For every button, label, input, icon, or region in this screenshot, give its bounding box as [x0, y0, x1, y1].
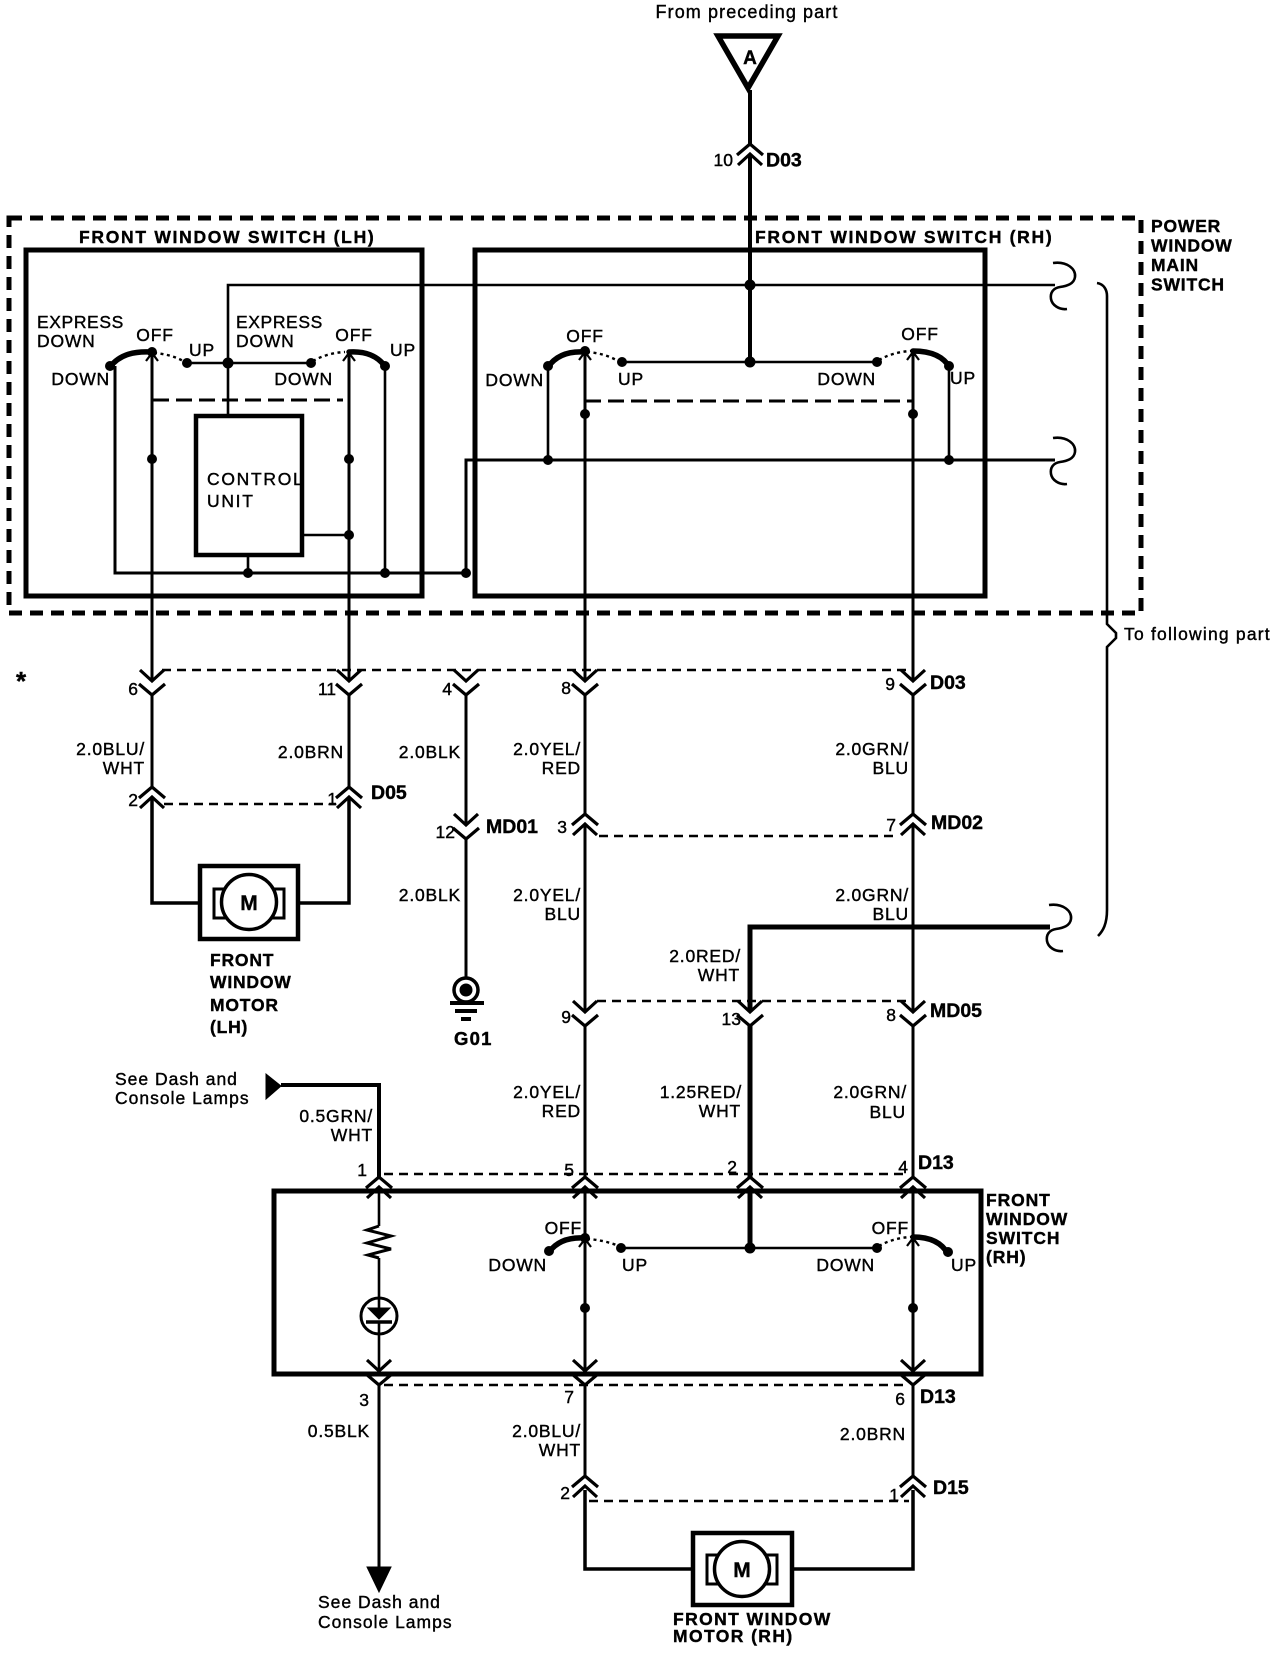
connector row dashed line (pins 3/7/6 D13 bottom) — [384, 1384, 909, 1387]
svg-text:2.0GRN/: 2.0GRN/ — [833, 1082, 907, 1102]
connector pin 13 (MD05 row) — [722, 1001, 763, 1029]
wire pin1 to resistor — [378, 1187, 381, 1226]
wire LH common net (y=573) from DOWN contact to x=466 — [115, 366, 466, 573]
svg-text:7: 7 — [886, 815, 896, 835]
svg-text:G01: G01 — [454, 1028, 493, 1049]
connector D15 pin 1 — [889, 1476, 969, 1505]
svg-text:11: 11 — [318, 679, 336, 699]
svg-text:BLU: BLU — [873, 904, 909, 924]
wire pin5 down to switch OFF contact — [584, 1187, 587, 1238]
wire LH switch1 UP to switch2 DOWN — [187, 362, 311, 365]
connector pin 2 (D05) — [128, 787, 165, 810]
svg-text:MD05: MD05 — [930, 1000, 982, 1022]
wire continuation curl (net y=927) — [1047, 905, 1071, 951]
front window switch LH box — [26, 250, 422, 596]
wire pin9 to pin5 2.0YEL/RED — [584, 1025, 587, 1177]
wire RH switch1 OFF contact down to pin 8 — [584, 352, 587, 681]
wire to following part (right vertical) — [1097, 283, 1116, 936]
svg-text:WHT: WHT — [103, 758, 145, 778]
svg-text:DOWN: DOWN — [816, 1255, 875, 1275]
svg-text:4: 4 — [898, 1157, 908, 1177]
label 2.0YEL/BLU — [513, 885, 581, 924]
wire pin7 to pin8 MD05 2.0GRN/BLU — [912, 824, 915, 1012]
wire D13 pin4 down through switch2 OFF to pin 6 — [912, 1187, 915, 1371]
connector D03 pin 9 — [885, 670, 966, 695]
connector pin 7 (D13 bottom) — [564, 1360, 598, 1407]
connector pin 2 (D13) — [727, 1157, 763, 1198]
label 2.0YEL/RED (lower) — [513, 1082, 581, 1121]
switch LH 2 (express down window switch) — [306, 352, 390, 371]
control unit box U1 — [196, 416, 304, 555]
svg-text:OFF: OFF — [545, 1218, 582, 1238]
wire MD01 pin12 to ground 2.0BLK — [465, 838, 468, 978]
svg-text:2.0BLU/: 2.0BLU/ — [76, 739, 145, 759]
svg-text:2.0BLK: 2.0BLK — [399, 742, 461, 762]
svg-text:*: * — [16, 666, 27, 696]
wire pin4 to MD01 2.0BLK — [465, 693, 468, 825]
svg-text:WINDOW: WINDOW — [986, 1209, 1068, 1229]
wire from triangle A down to connector D03 pin 10 — [748, 90, 752, 144]
switch RH 1 (main switch, RH window) — [543, 346, 627, 371]
svg-text:2.0YEL/: 2.0YEL/ — [513, 1082, 581, 1102]
wire D03 pin 10 to power window main switch feed node — [748, 154, 752, 362]
connector row dashed line (pins 9/13/8 MD05) — [597, 1000, 907, 1003]
connector pin 9 (MD05 row) — [561, 1001, 598, 1027]
svg-text:SWITCH: SWITCH — [986, 1228, 1060, 1248]
svg-text:DOWN: DOWN — [817, 369, 876, 389]
connector D05 pin 1 — [327, 782, 407, 809]
svg-text:6: 6 — [128, 679, 138, 699]
wire LH switch2 UP contact down to common net — [384, 366, 387, 573]
svg-text:8: 8 — [561, 678, 571, 698]
node junction at (248,573) — [243, 568, 253, 578]
svg-text:(RH): (RH) — [986, 1247, 1027, 1267]
wire RH switch2 OFF contact down to pin 9 — [912, 352, 915, 681]
svg-text:UP: UP — [189, 340, 215, 360]
connector symbol A (triangle from preceding part) — [718, 36, 778, 88]
wire pin7 to pin2 D15 2.0BLU/WHT — [584, 1385, 587, 1476]
label 2.0GRN/BLU (third) — [833, 1082, 907, 1122]
arrow to dash and console lamps — [266, 1074, 281, 1099]
svg-text:FRONT: FRONT — [210, 950, 274, 970]
svg-text:UNIT: UNIT — [207, 491, 255, 511]
svg-text:D15: D15 — [933, 1477, 969, 1499]
svg-text:EXPRESS: EXPRESS — [37, 312, 124, 332]
label See Dash and Console Lamps (upper) — [115, 1069, 250, 1108]
node junction at (750,1248) — [745, 1243, 756, 1254]
svg-text:EXPRESS: EXPRESS — [236, 312, 323, 332]
svg-text:1: 1 — [327, 789, 337, 809]
svg-text:1: 1 — [889, 1485, 899, 1505]
svg-text:D03: D03 — [766, 150, 802, 172]
svg-text:D13: D13 — [918, 1152, 954, 1174]
switch RH 2 (main switch, RH window) — [872, 351, 954, 371]
connector pin 1 (D13) — [357, 1160, 392, 1198]
label EXPRESS DOWN (LH switch 2) — [236, 312, 323, 351]
label 2.0GRN/BLU — [835, 739, 909, 778]
wire LH switch2 OFF contact down to pin 11 — [348, 352, 351, 681]
svg-text:2: 2 — [727, 1157, 737, 1177]
wire from LH switch common to RH switch and to following part (net at y=285) — [228, 285, 1055, 416]
svg-text:BLU: BLU — [545, 904, 581, 924]
svg-text:FRONT: FRONT — [986, 1190, 1051, 1210]
svg-text:1: 1 — [357, 1160, 367, 1180]
connector pin 6 — [128, 670, 165, 699]
wire D15 pin1 down to RH motor — [791, 1490, 913, 1569]
svg-text:2.0GRN/: 2.0GRN/ — [835, 885, 909, 905]
node junction at (349,459) — [344, 454, 354, 464]
node junction at (228,363) — [223, 358, 234, 369]
svg-text:Console Lamps: Console Lamps — [115, 1088, 250, 1108]
wire control unit right side to switch2 line — [302, 534, 349, 537]
svg-text:2.0GRN/: 2.0GRN/ — [835, 739, 909, 759]
wire pin3 to pin9 2.0YEL/BLU — [584, 824, 587, 1012]
wire resistor to LED — [378, 1258, 381, 1299]
svg-text:2.0BLU/: 2.0BLU/ — [512, 1421, 581, 1441]
svg-text:MD01: MD01 — [486, 816, 538, 838]
wire continuation curl (net y=285) — [1051, 263, 1075, 309]
connector pin 4 — [442, 670, 479, 699]
svg-text:3: 3 — [359, 1390, 369, 1410]
wire pin8 to pin3 2.0YEL/RED — [584, 693, 587, 814]
node junction at (385,573) — [380, 568, 390, 578]
node junction at (913,414) — [908, 409, 918, 419]
svg-text:0.5GRN/: 0.5GRN/ — [299, 1106, 373, 1126]
svg-text:UP: UP — [390, 340, 416, 360]
svg-text:WHT: WHT — [699, 1101, 741, 1121]
connector row dashed line (pins 1/5/2/4 D13) — [384, 1173, 909, 1176]
svg-text:8: 8 — [886, 1005, 896, 1025]
connector MD05 pin 8 — [886, 1000, 982, 1026]
svg-text:WHT: WHT — [331, 1125, 373, 1145]
svg-text:2.0BRN: 2.0BRN — [840, 1424, 906, 1444]
wire RH switch1 UP to switch2 DOWN — [622, 361, 877, 364]
wire D05 pin1 down to LH motor — [298, 797, 349, 903]
switch door 2 (RH window switch) — [872, 1237, 953, 1257]
connector MD01 pin 12 — [436, 814, 539, 842]
label 2.0GRN/BLU (second) — [835, 885, 909, 924]
label POWER WINDOW MAIN SWITCH — [1151, 216, 1233, 295]
front window switch RH box (door) — [274, 1191, 981, 1374]
wire pin2 down to LH motor — [152, 797, 200, 903]
label 0.5GRN/WHT — [299, 1106, 373, 1145]
connector row dashed line (pins 2/1 D05) — [164, 803, 336, 806]
svg-text:2.0YEL/: 2.0YEL/ — [513, 885, 581, 905]
label 2.0YEL/RED — [513, 739, 581, 778]
label FRONT WINDOW MOTOR (RH) — [673, 1609, 832, 1646]
resistor R1 (illumination) — [367, 1226, 391, 1258]
connector pin 3 (D13 bottom) — [359, 1360, 392, 1410]
node junction at (913,1308) — [908, 1303, 918, 1313]
connector row dashed line (pins 3/7 MD02) — [599, 835, 899, 838]
svg-text:D13: D13 — [920, 1386, 956, 1408]
label EXPRESS DOWN (LH switch 1) — [37, 312, 124, 351]
svg-text:2.0BLK: 2.0BLK — [399, 885, 461, 905]
svg-text:2.0BRN: 2.0BRN — [278, 742, 344, 762]
svg-text:CONTROL: CONTROL — [207, 469, 304, 489]
connector pin 8 — [561, 670, 598, 698]
svg-text:UP: UP — [622, 1255, 648, 1275]
wire RH switch2 UP contact down to lower net — [948, 367, 951, 460]
front window motor RH — [693, 1533, 792, 1605]
svg-text:3: 3 — [557, 817, 567, 837]
wire lower net (y=460) to following part — [466, 460, 1055, 573]
svg-text:WHT: WHT — [698, 965, 740, 985]
svg-text:DOWN: DOWN — [236, 331, 295, 351]
wire pin3 to dash and console lamps 0.5BLK — [378, 1385, 381, 1568]
label 2.0RED/WHT — [669, 946, 741, 985]
svg-text:FRONT WINDOW SWITCH (LH): FRONT WINDOW SWITCH (LH) — [79, 227, 375, 247]
svg-text:MOTOR (RH): MOTOR (RH) — [673, 1626, 794, 1646]
label FRONT WINDOW MOTOR (LH) — [210, 950, 292, 1037]
wire LH switch1 OFF contact down to pin 6 — [151, 352, 154, 681]
svg-text:FRONT WINDOW SWITCH (RH): FRONT WINDOW SWITCH (RH) — [755, 227, 1053, 247]
svg-text:A: A — [743, 48, 757, 69]
node junction at (585,414) — [580, 409, 590, 419]
svg-text:(LH): (LH) — [210, 1017, 248, 1037]
svg-text:Console Lamps: Console Lamps — [318, 1612, 453, 1632]
label 2.0BLU/WHT — [76, 739, 145, 778]
wire door switch1 OFF down to pin 7 — [584, 1238, 587, 1371]
svg-text:See Dash and: See Dash and — [318, 1592, 441, 1612]
connector row dashed line (pins 2/1 D15) — [589, 1500, 909, 1503]
connector pin 5 (D13) — [564, 1160, 598, 1198]
ground G01 — [450, 978, 493, 1049]
svg-text:MOTOR: MOTOR — [210, 995, 279, 1015]
front window switch RH box (main switch) — [475, 250, 985, 596]
svg-text:RED: RED — [542, 1101, 581, 1121]
wire RH switch1 DOWN contact down to lower net — [547, 367, 550, 460]
svg-text:9: 9 — [561, 1007, 571, 1027]
svg-text:DOWN: DOWN — [485, 370, 544, 390]
svg-text:MD02: MD02 — [931, 812, 983, 834]
svg-text:DOWN: DOWN — [274, 369, 333, 389]
svg-text:OFF: OFF — [335, 325, 372, 345]
node junction at (949,460) — [944, 455, 954, 465]
connector row dashed line (pins 6/11/4/8/9) — [162, 669, 913, 672]
wire pin11 to pin1 2.0BRN — [348, 693, 351, 787]
wire MD05 pin8 to pin4 2.0GRN/BLU — [912, 1025, 915, 1177]
LED D1 (illumination lamp) — [361, 1298, 397, 1334]
svg-text:DOWN: DOWN — [51, 369, 110, 389]
svg-text:6: 6 — [895, 1389, 905, 1409]
wire pin9 to pin7 2.0GRN/BLU — [912, 693, 915, 814]
connector pin 3 (MD02) — [557, 814, 598, 837]
front window motor LH — [200, 866, 298, 939]
svg-text:1.25RED/: 1.25RED/ — [660, 1082, 742, 1102]
node junction feed at (750,285) — [745, 280, 756, 291]
svg-text:UP: UP — [951, 1255, 977, 1275]
svg-text:WINDOW: WINDOW — [1151, 236, 1233, 256]
svg-text:4: 4 — [442, 679, 452, 699]
node junction at (585,1308) — [580, 1303, 590, 1313]
svg-text:To following part: To following part — [1124, 624, 1271, 644]
wire 2.0RED/WHT from following part to pin 13 — [750, 927, 1050, 1012]
connector D13 pin 6 — [895, 1360, 956, 1409]
connector pin 2 (D15) — [560, 1476, 598, 1503]
label See Dash and Console Lamps (lower) — [318, 1592, 453, 1632]
svg-text:M: M — [733, 1559, 751, 1582]
power window main switch dashed enclosure — [9, 218, 1141, 613]
wire 0.5GRN/WHT from console lamps to pin 1 — [281, 1085, 379, 1177]
svg-text:M: M — [240, 892, 258, 915]
switch LH 1 (express down window switch) — [105, 347, 192, 371]
node junction at (349,535) — [344, 530, 354, 540]
svg-text:2: 2 — [560, 1483, 570, 1503]
svg-text:RED: RED — [542, 758, 581, 778]
svg-text:5: 5 — [564, 1160, 574, 1180]
svg-text:UP: UP — [618, 369, 644, 389]
connector D13 pin 4 — [898, 1152, 954, 1198]
svg-text:UP: UP — [950, 368, 976, 388]
node junction at (152,459) — [147, 454, 157, 464]
svg-text:WHT: WHT — [539, 1440, 581, 1460]
node junction at (548,460) — [543, 455, 553, 465]
svg-text:BLU: BLU — [873, 758, 909, 778]
svg-text:13: 13 — [722, 1009, 741, 1029]
wire LED to pin 3 — [378, 1334, 381, 1371]
wire D13 pin6 to D15 pin1 2.0BRN — [912, 1385, 915, 1476]
wire pin6 to pin2 2.0BLU/WHT — [151, 693, 154, 787]
svg-text:OFF: OFF — [136, 325, 173, 345]
svg-text:DOWN: DOWN — [488, 1255, 547, 1275]
connector MD02 pin 7 — [886, 812, 983, 835]
svg-text:2.0RED/: 2.0RED/ — [669, 946, 741, 966]
connector pin 11 — [318, 670, 362, 699]
svg-text:SWITCH: SWITCH — [1151, 275, 1225, 295]
svg-text:See Dash and: See Dash and — [115, 1069, 238, 1089]
wire D13 pin2 down to switch line — [748, 1187, 753, 1248]
connector D03 pin 10 — [714, 144, 802, 172]
svg-text:2: 2 — [128, 790, 138, 810]
arrow to dash and console lamps (bottom) — [367, 1567, 391, 1592]
label FRONT WINDOW SWITCH (RH) side — [986, 1190, 1068, 1267]
svg-text:10: 10 — [714, 150, 734, 170]
svg-text:2.0YEL/: 2.0YEL/ — [513, 739, 581, 759]
svg-text:From preceding part: From preceding part — [656, 2, 839, 22]
svg-text:MAIN: MAIN — [1151, 255, 1199, 275]
mechanical link dashed line RH — [585, 400, 913, 403]
switch door 1 (RH window switch) — [544, 1233, 626, 1256]
svg-text:POWER: POWER — [1151, 216, 1221, 236]
svg-text:0.5BLK: 0.5BLK — [308, 1421, 370, 1441]
svg-text:OFF: OFF — [566, 326, 603, 346]
svg-text:BLU: BLU — [870, 1102, 906, 1122]
wire pin13 to pin2 1.25RED/WHT — [748, 1025, 753, 1177]
svg-text:OFF: OFF — [872, 1218, 909, 1238]
svg-text:12: 12 — [436, 822, 455, 842]
node junction at (466,573) — [461, 568, 471, 578]
svg-text:9: 9 — [885, 674, 895, 694]
wire D15 pin2 down to RH motor — [585, 1490, 693, 1569]
svg-text:WINDOW: WINDOW — [210, 972, 292, 992]
mechanical link dashed line LH — [153, 399, 343, 402]
svg-text:D05: D05 — [371, 782, 407, 804]
svg-text:D03: D03 — [930, 672, 966, 694]
svg-text:OFF: OFF — [901, 324, 938, 344]
wire continuation curl (net y=460) — [1051, 438, 1075, 484]
svg-text:7: 7 — [564, 1387, 574, 1407]
label 2.0BLU/WHT (bottom) — [512, 1421, 581, 1460]
label 1.25RED/WHT — [660, 1082, 742, 1121]
node junction feed at (750,362) — [745, 357, 756, 368]
svg-text:DOWN: DOWN — [37, 331, 96, 351]
wire control unit bottom to common net — [247, 555, 250, 573]
wire door switch1 UP to switch2 DOWN — [621, 1247, 877, 1250]
